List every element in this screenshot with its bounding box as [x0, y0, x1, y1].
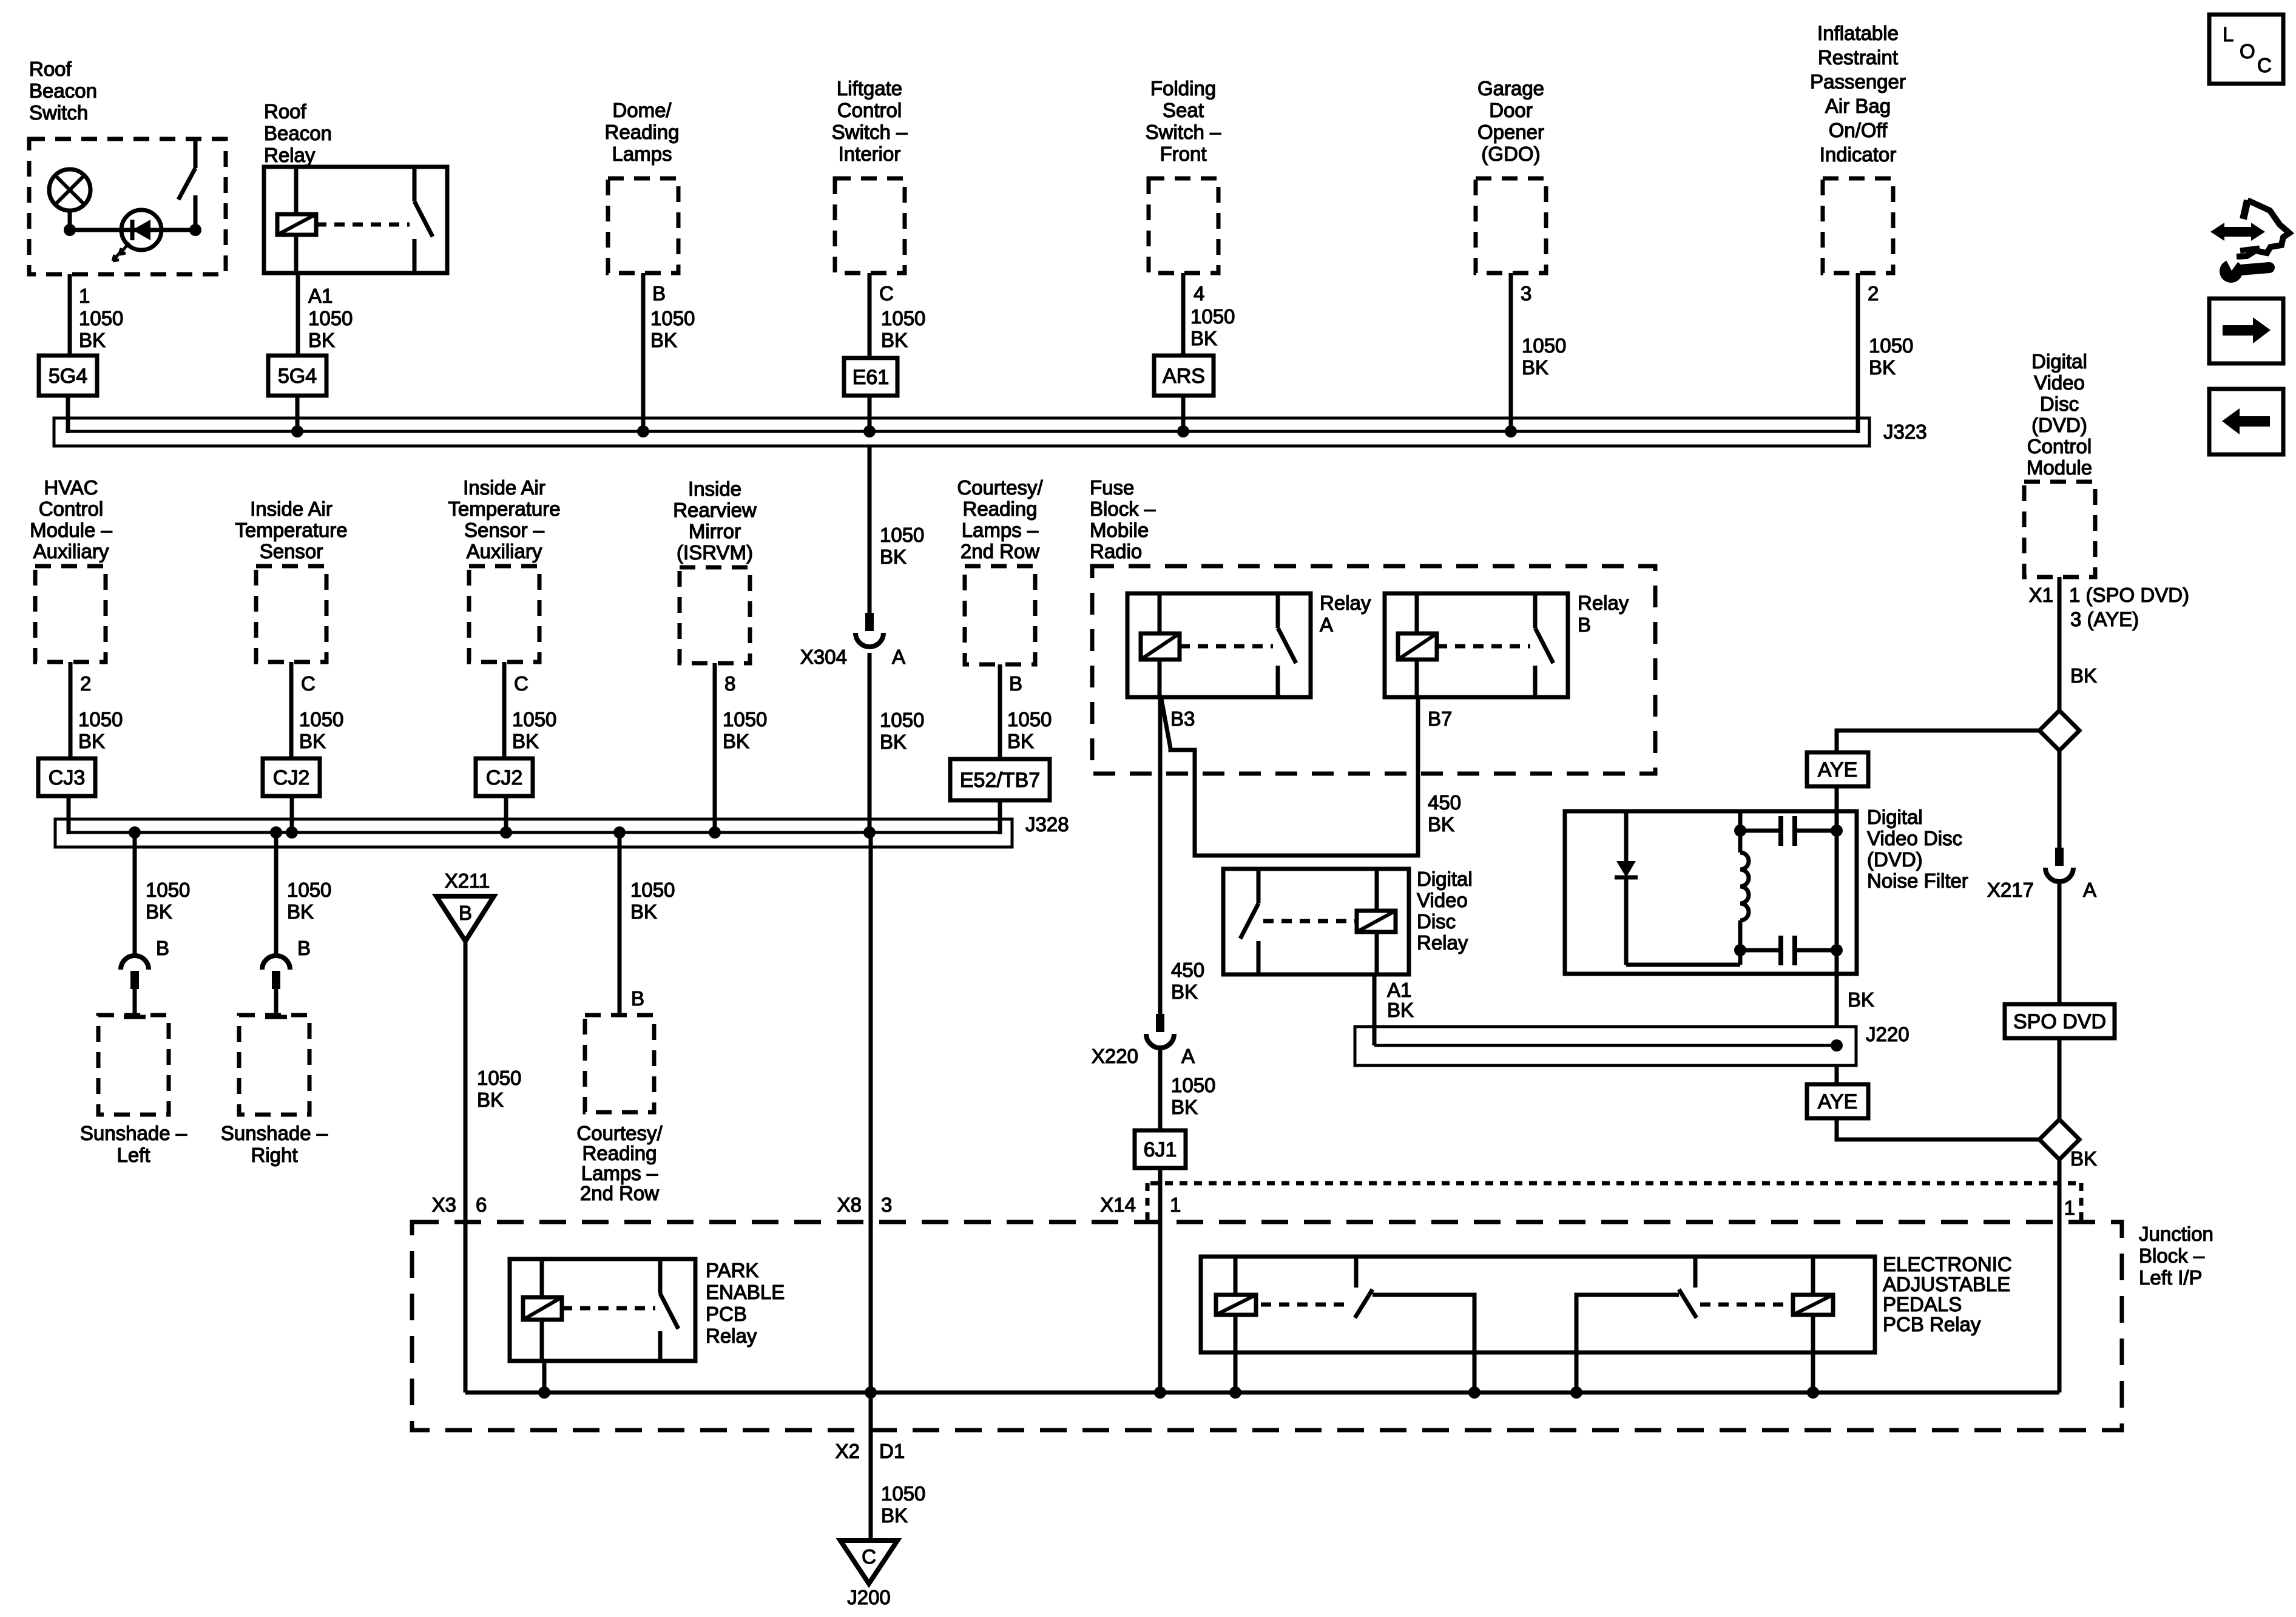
wire diamond upper to X217	[2058, 751, 2062, 848]
forward arrow legend box	[2209, 299, 2283, 363]
svg-text:B: B	[1009, 672, 1022, 695]
svg-text:1050: 1050	[299, 708, 343, 731]
svg-text:BK: BK	[880, 545, 907, 568]
svg-text:Right: Right	[251, 1144, 297, 1166]
svg-text:Module –: Module –	[30, 519, 112, 541]
ELECTRONIC ADJUSTABLE PEDALS PCB relay	[1201, 1253, 2012, 1352]
fuse block - mobile radio	[1090, 476, 1655, 774]
wire pin 4 folding seat switch 1050 BK	[1183, 273, 1235, 356]
svg-text:BK: BK	[79, 329, 106, 351]
svg-text:(GDO): (GDO)	[1481, 143, 1540, 165]
svg-text:C: C	[2257, 54, 2272, 76]
junction dot J328 x=222	[129, 826, 141, 839]
svg-text:2nd Row: 2nd Row	[961, 540, 1039, 562]
svg-text:Sensor –: Sensor –	[464, 519, 545, 541]
svg-text:Opener: Opener	[1477, 121, 1544, 143]
svg-text:(DVD): (DVD)	[2031, 414, 2087, 436]
HVAC control module - auxiliary	[30, 476, 112, 662]
wire pin C IAT sensor 1050 BK	[291, 662, 343, 758]
svg-text:5G4: 5G4	[278, 365, 317, 388]
service tool icon	[2210, 200, 2289, 283]
svg-text:PCB: PCB	[706, 1303, 747, 1325]
wire J328 to junction block X8 pin 3	[837, 832, 893, 1393]
svg-text:Lamps –: Lamps –	[581, 1162, 658, 1184]
net label AYE (lower)	[1807, 1084, 1868, 1118]
svg-text:X220: X220	[1092, 1045, 1138, 1067]
svg-text:CJ3: CJ3	[49, 766, 85, 789]
svg-text:Restraint: Restraint	[1818, 46, 1898, 69]
svg-text:1050: 1050	[1869, 334, 1913, 357]
svg-text:B7: B7	[1428, 707, 1452, 730]
svg-text:3: 3	[1521, 282, 1531, 305]
ground connector J200 triangle C	[840, 1541, 897, 1609]
svg-text:Garage: Garage	[1477, 77, 1544, 100]
svg-text:Passenger: Passenger	[1810, 70, 1906, 93]
splice diamond lower	[2039, 1119, 2079, 1160]
svg-text:Inside Air: Inside Air	[463, 476, 545, 499]
svg-text:1050: 1050	[1171, 1074, 1215, 1096]
connector code 5G4 (roof beacon relay)	[268, 356, 326, 396]
svg-text:BK: BK	[880, 731, 907, 753]
svg-text:ARS: ARS	[1163, 365, 1205, 388]
svg-text:Seat: Seat	[1163, 99, 1204, 121]
svg-text:Temperature: Temperature	[235, 519, 347, 541]
svg-text:Relay: Relay	[1578, 592, 1629, 614]
svg-text:X2: X2	[836, 1440, 860, 1462]
svg-text:Lamps –: Lamps –	[962, 519, 1039, 541]
inside air temperature sensor	[235, 498, 347, 662]
svg-text:A: A	[1320, 613, 1333, 636]
junction dot C1 right	[1831, 825, 1843, 837]
svg-text:2: 2	[80, 672, 91, 695]
wire J328 to sunshade right 1050 BK pin B	[276, 832, 331, 959]
wire J220 to AYE lower	[1835, 1065, 1839, 1084]
svg-text:Door: Door	[1489, 99, 1533, 121]
svg-text:Auxiliary: Auxiliary	[33, 540, 109, 562]
svg-text:B: B	[652, 282, 666, 305]
svg-text:Relay: Relay	[264, 144, 316, 166]
svg-text:A: A	[892, 646, 905, 668]
wire pin B dome/reading lamps 1050 BK	[643, 273, 695, 431]
wire pin 3 GDO 1050 BK	[1511, 273, 1566, 431]
EAP relay coil left	[1216, 1257, 1348, 1393]
svg-text:Digital: Digital	[1417, 868, 1473, 890]
wire pin C IAT aux 1050 BK	[504, 662, 556, 758]
svg-text:Reading: Reading	[605, 121, 680, 143]
roof beacon switch	[29, 58, 226, 274]
wire 6J1 to junction block X14 pin 1	[1100, 1168, 1181, 1393]
svg-text:AYE: AYE	[1818, 1090, 1858, 1113]
connector code 5G4 (roof beacon switch)	[39, 356, 97, 396]
in-line connector X220 pin A	[1092, 1014, 1195, 1067]
net label SPO DVD	[2005, 1004, 2115, 1038]
junction dot J328 x=834	[500, 826, 512, 839]
relay B (fuse block)	[1385, 592, 1629, 697]
digital video disc (DVD) noise filter	[1565, 806, 1968, 974]
svg-text:E61: E61	[853, 366, 890, 389]
junction dot J328 x=1178	[709, 826, 721, 839]
svg-text:X211: X211	[445, 869, 490, 892]
junction dot J220	[1831, 1039, 1843, 1052]
svg-text:1050: 1050	[1007, 708, 1052, 731]
connector code ARS	[1154, 356, 1214, 396]
svg-text:Sensor: Sensor	[260, 540, 323, 562]
svg-text:J323: J323	[1883, 420, 1927, 443]
svg-text:1: 1	[79, 285, 90, 307]
svg-text:Air Bag: Air Bag	[1825, 95, 1891, 117]
svg-text:1050: 1050	[880, 709, 924, 731]
svg-text:Lamps: Lamps	[612, 143, 672, 165]
inflatable restraint passenger air bag on/off indicator	[1810, 22, 1906, 273]
svg-text:450: 450	[1428, 791, 1461, 814]
svg-text:Sunshade –: Sunshade –	[80, 1122, 187, 1144]
splice diamond upper	[2039, 711, 2079, 751]
junction dot bottom bus x=2988	[1807, 1386, 1819, 1399]
svg-text:Block –: Block –	[2139, 1244, 2205, 1267]
svg-text:BK: BK	[287, 900, 314, 923]
svg-text:A: A	[1181, 1045, 1195, 1067]
svg-text:Disc: Disc	[2040, 393, 2079, 415]
svg-text:ADJUSTABLE: ADJUSTABLE	[1883, 1273, 2010, 1295]
svg-text:C: C	[514, 672, 528, 695]
junction dot J323 x=490	[291, 425, 303, 437]
svg-text:Video: Video	[1417, 889, 1468, 911]
svg-text:Courtesy/: Courtesy/	[957, 476, 1043, 499]
junction dot inductor top	[1734, 825, 1746, 837]
svg-text:Block –: Block –	[1090, 498, 1156, 520]
svg-text:1050: 1050	[630, 879, 675, 901]
svg-text:BK: BK	[477, 1089, 504, 1111]
wire pin 8 ISRVM 1050 BK	[715, 663, 767, 832]
splice pack J220 bus	[1355, 1023, 1909, 1065]
svg-text:BK: BK	[881, 329, 908, 351]
EAP relay switch right	[1576, 1257, 1697, 1393]
junction dot J328 x=455	[270, 826, 282, 839]
svg-text:B: B	[156, 937, 169, 959]
svg-text:BK: BK	[1387, 999, 1414, 1021]
svg-text:Control: Control	[837, 99, 902, 121]
svg-text:B: B	[1578, 613, 1591, 636]
svg-text:Beacon: Beacon	[264, 122, 332, 144]
svg-text:BK: BK	[881, 1504, 908, 1527]
svg-text:1050: 1050	[881, 307, 925, 329]
digital video disc relay	[1223, 868, 1473, 974]
svg-text:D1: D1	[879, 1440, 905, 1462]
svg-text:1050: 1050	[1522, 334, 1566, 357]
svg-text:BK: BK	[630, 900, 657, 923]
wire pin 2 air bag indicator 1050 BK	[1858, 273, 1913, 433]
LED - roof beacon switch	[64, 210, 201, 261]
junction dot J323 x=1060	[637, 425, 649, 437]
svg-text:1050: 1050	[477, 1067, 521, 1089]
connector code CJ2 (aux)	[476, 758, 533, 796]
svg-text:CJ2: CJ2	[273, 766, 309, 789]
svg-text:Switch: Switch	[29, 101, 88, 124]
splice pack J323 bus	[54, 418, 1927, 446]
wire pin B courtesy lamps 1050 BK	[1000, 664, 1052, 759]
svg-text:1: 1	[2064, 1197, 2075, 1219]
svg-text:Reading: Reading	[582, 1142, 657, 1164]
svg-text:B: B	[297, 937, 311, 959]
wire X220 to 6J1 1050 BK	[1160, 1050, 1215, 1130]
svg-text:Indicator: Indicator	[1820, 143, 1897, 166]
svg-text:Junction: Junction	[2139, 1223, 2213, 1245]
svg-text:Control: Control	[2027, 435, 2092, 457]
svg-text:Auxiliary: Auxiliary	[467, 540, 542, 562]
svg-text:Mobile: Mobile	[1090, 519, 1149, 541]
wire pin 2 HVAC aux 1050 BK	[70, 662, 123, 758]
wire J323 to X304 1050 BK	[869, 446, 924, 613]
wire CJ2 to J328	[290, 796, 294, 832]
junction dot bottom bus x=2430	[1468, 1386, 1481, 1399]
svg-text:BK: BK	[650, 329, 677, 351]
svg-text:1: 1	[1170, 1193, 1181, 1216]
connector code E61	[844, 358, 897, 396]
svg-text:CJ2: CJ2	[486, 766, 522, 789]
junction dot J323 x=1950	[1177, 425, 1189, 437]
svg-text:X3: X3	[432, 1193, 456, 1216]
svg-text:BK: BK	[1190, 327, 1217, 349]
garage door opener (GDO)	[1476, 77, 1546, 273]
ground wire bottom bus	[465, 1391, 2059, 1395]
junction dot J328 x=481	[286, 826, 298, 839]
svg-text:Switch –: Switch –	[1146, 121, 1221, 143]
svg-text:B: B	[459, 902, 472, 924]
svg-text:1050: 1050	[78, 708, 123, 731]
wire pin A1 roof beacon relay 1050 BK	[298, 273, 353, 356]
svg-text:C: C	[301, 672, 316, 695]
wire E52/TB7 to J328	[998, 800, 1002, 834]
wire J328 to courtesy lamps lower 1050 BK pin B	[620, 832, 675, 1015]
svg-text:Left: Left	[116, 1144, 150, 1166]
svg-text:J328: J328	[1025, 813, 1069, 836]
svg-text:A1: A1	[1387, 979, 1411, 1001]
wire AYE through noise filter to J220 BK	[1837, 814, 1874, 1027]
svg-text:Control: Control	[39, 498, 103, 520]
junction dot J323 x=1433	[863, 425, 876, 437]
wire SPO DVD to diamond lower	[2058, 1038, 2062, 1119]
svg-text:BK: BK	[146, 900, 172, 923]
wire noise filter bottom	[1626, 963, 1740, 967]
svg-text:1050: 1050	[146, 879, 190, 901]
svg-text:E52/TB7: E52/TB7	[960, 769, 1040, 792]
svg-text:(DVD): (DVD)	[1867, 848, 1923, 871]
junction dot J328 x=1021	[613, 826, 626, 839]
svg-text:X217: X217	[1987, 879, 2034, 901]
svg-text:Digital: Digital	[2031, 350, 2087, 373]
courtesy/reading lamps - 2nd row (upper)	[957, 476, 1043, 664]
svg-text:L: L	[2223, 23, 2234, 46]
svg-text:B: B	[631, 987, 644, 1010]
wire pin 1 roof beacon switch 1050 BK	[70, 274, 123, 356]
wire pin B3 relay A down 450 BK	[1160, 697, 1204, 1014]
svg-text:4: 4	[1194, 282, 1204, 305]
relay A (fuse block)	[1127, 592, 1371, 697]
wire PARK relay coil to ground bus	[542, 1361, 547, 1393]
junction dot bottom bus x=2036	[1229, 1386, 1241, 1399]
svg-text:2nd Row: 2nd Row	[580, 1182, 659, 1204]
svg-text:BK: BK	[512, 730, 539, 752]
svg-text:PCB Relay: PCB Relay	[1883, 1313, 1981, 1335]
svg-text:X1: X1	[2029, 584, 2053, 606]
splice pack J328 bus	[55, 813, 1069, 847]
svg-text:BK: BK	[299, 730, 326, 752]
wire X211 to junction block X3 pin 6 1050 BK	[432, 941, 522, 1393]
svg-text:Disc: Disc	[1417, 910, 1456, 933]
svg-text:1050: 1050	[1190, 305, 1235, 328]
junction dot bottom bus x=897	[538, 1386, 550, 1399]
connector code CJ3	[38, 758, 95, 796]
svg-text:BK: BK	[1848, 988, 1874, 1011]
backward arrow legend box	[2209, 389, 2283, 454]
wire diamond lower to junction block pin 1 BK	[2059, 1147, 2097, 1393]
wire DVD control module X1 pins 1 (SPO DVD) / 3 (AYE) BK	[2029, 577, 2189, 711]
junction block - left I/P	[412, 1183, 2213, 1430]
svg-text:Reading: Reading	[963, 498, 1038, 520]
svg-text:Video Disc: Video Disc	[1867, 827, 1962, 849]
svg-text:6J1: 6J1	[1144, 1138, 1177, 1161]
diode D (noise filter)	[1615, 811, 1638, 965]
svg-text:3: 3	[881, 1193, 892, 1216]
svg-text:Relay: Relay	[706, 1325, 757, 1347]
svg-text:Fuse: Fuse	[1090, 476, 1134, 499]
wire pin B3 jog to pin B7 relay B 450 BK	[1161, 697, 1461, 856]
svg-text:BK: BK	[1007, 730, 1034, 752]
inside air temperature sensor - auxiliary	[448, 476, 560, 662]
svg-text:BK: BK	[1171, 1096, 1198, 1118]
svg-text:BK: BK	[1428, 813, 1454, 836]
svg-text:Left I/P: Left I/P	[2139, 1266, 2203, 1289]
connector code E52/TB7	[950, 759, 1050, 800]
svg-text:Switch –: Switch –	[832, 121, 908, 143]
svg-text:AYE: AYE	[1818, 758, 1858, 781]
junction dot J323 x=2490	[1505, 425, 1517, 437]
svg-text:A: A	[2083, 879, 2096, 901]
LOC legend box	[2209, 15, 2283, 84]
wire junction block X2 pin D1 to J200 1050 BK	[836, 1393, 926, 1541]
svg-text:X304: X304	[800, 646, 847, 668]
svg-text:Inflatable: Inflatable	[1817, 22, 1899, 44]
junction dot bottom bus x=1435	[865, 1386, 877, 1399]
wire X217 to SPO DVD	[2058, 884, 2062, 1004]
svg-text:PARK: PARK	[706, 1259, 758, 1281]
in-line connector sunshade left	[121, 956, 149, 989]
svg-text:BK: BK	[78, 730, 105, 752]
svg-text:A1: A1	[308, 285, 333, 307]
junction dot J328 x=1433	[863, 826, 876, 839]
in-line connector X217 pin A	[1987, 848, 2096, 901]
svg-text:Digital: Digital	[1867, 806, 1923, 828]
svg-text:Courtesy/: Courtesy/	[576, 1122, 663, 1144]
svg-text:BK: BK	[308, 329, 335, 351]
svg-text:Mirror: Mirror	[689, 520, 741, 542]
svg-text:SPO DVD: SPO DVD	[2013, 1010, 2106, 1033]
folding seat switch - front	[1146, 77, 1221, 273]
svg-text:1 (SPO DVD): 1 (SPO DVD)	[2069, 584, 2189, 606]
net label AYE (upper)	[1807, 752, 1868, 786]
svg-text:C: C	[862, 1545, 876, 1568]
svg-text:J220: J220	[1866, 1023, 1909, 1045]
courtesy/reading lamps - 2nd row (lower)	[576, 1015, 663, 1204]
wire AYE lower to diamond lower	[1837, 1118, 2039, 1139]
sunshade - right	[221, 989, 328, 1166]
svg-text:BK: BK	[2070, 664, 2097, 687]
svg-text:X8: X8	[837, 1193, 862, 1216]
svg-text:ENABLE: ENABLE	[706, 1281, 785, 1303]
EAP relay coil right	[1700, 1257, 1833, 1393]
svg-text:Roof: Roof	[29, 58, 72, 80]
digital video disc (DVD) control module	[2024, 350, 2095, 577]
svg-text:1050: 1050	[723, 708, 767, 731]
connector code 6J1	[1135, 1130, 1186, 1168]
svg-text:BK: BK	[1171, 981, 1198, 1003]
wire E61 to J323	[868, 396, 872, 431]
connector X211 triangle B	[436, 869, 494, 941]
svg-text:(ISRVM): (ISRVM)	[677, 541, 753, 564]
wire pin A1 DVD relay BK	[1374, 974, 1414, 1045]
wire 5G4 to J323	[66, 396, 70, 433]
svg-text:Inside: Inside	[688, 478, 741, 500]
svg-text:Inside Air: Inside Air	[250, 498, 333, 520]
switch blade - roof beacon switch	[178, 139, 195, 230]
junction dot inductor bottom	[1734, 944, 1746, 956]
svg-text:J200: J200	[847, 1586, 891, 1609]
svg-text:HVAC: HVAC	[44, 476, 98, 499]
wire CJ2 aux to J328	[504, 796, 508, 832]
svg-text:PEDALS: PEDALS	[1883, 1293, 1962, 1315]
wire CJ3 to J328	[67, 796, 71, 834]
svg-text:5G4: 5G4	[49, 365, 87, 388]
svg-text:Rearview: Rearview	[673, 499, 757, 521]
wire diamond to AYE upper	[1837, 731, 2039, 752]
svg-text:Module: Module	[2027, 456, 2092, 479]
svg-text:Folding: Folding	[1150, 77, 1216, 100]
wire 5G4#2 to J323	[295, 396, 300, 431]
junction dot bottom bus x=2598	[1570, 1386, 1582, 1399]
svg-text:Relay: Relay	[1320, 592, 1371, 614]
junction dot C2 right	[1831, 944, 1843, 956]
wire pin C liftgate switch 1050 BK	[869, 273, 925, 358]
capacitor C1 (noise filter)	[1740, 816, 1837, 846]
svg-text:1050: 1050	[880, 524, 924, 546]
svg-text:X14: X14	[1100, 1193, 1136, 1216]
relay - roof beacon relay	[264, 100, 447, 273]
capacitor C2 (noise filter)	[1740, 936, 1837, 965]
svg-text:B3: B3	[1170, 707, 1195, 730]
wire AYE to noise filter	[1835, 786, 1839, 814]
EAP relay switch left	[1355, 1257, 1474, 1393]
svg-text:Liftgate: Liftgate	[837, 77, 902, 100]
svg-text:On/Off: On/Off	[1829, 119, 1888, 141]
svg-text:Beacon: Beacon	[29, 79, 97, 102]
svg-text:Sunshade –: Sunshade –	[221, 1122, 328, 1144]
connector code CJ2	[263, 758, 320, 796]
svg-text:Roof: Roof	[264, 100, 307, 123]
inside rearview mirror (ISRVM)	[673, 478, 757, 663]
svg-text:Temperature: Temperature	[448, 498, 560, 520]
svg-text:Radio: Radio	[1090, 540, 1142, 562]
liftgate control switch - interior	[832, 77, 908, 273]
svg-text:BK: BK	[2070, 1147, 2097, 1170]
svg-text:Interior: Interior	[839, 143, 901, 165]
in-line connector X304 pin A	[800, 613, 905, 668]
in-line connector sunshade right	[262, 956, 290, 989]
svg-text:BK: BK	[1522, 356, 1548, 379]
svg-text:C: C	[879, 282, 894, 305]
dome/reading lamps	[605, 99, 680, 273]
svg-text:1050: 1050	[79, 307, 123, 329]
svg-text:1050: 1050	[881, 1482, 925, 1505]
